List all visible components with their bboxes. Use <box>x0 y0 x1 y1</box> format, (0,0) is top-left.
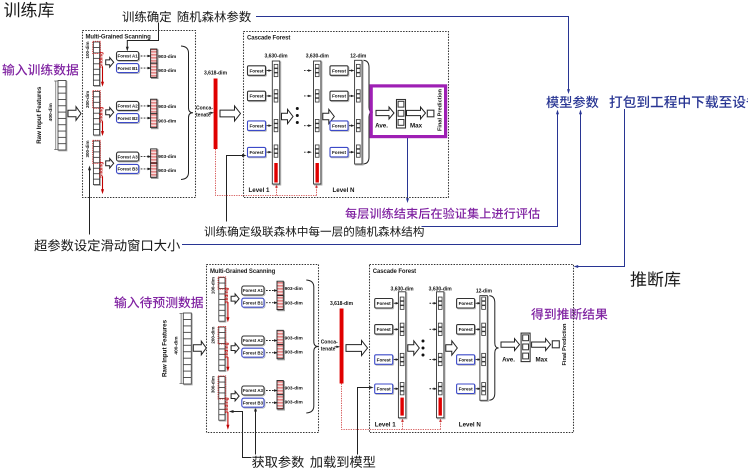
inf g3 hollow arrow scan <box>231 391 239 401</box>
training purple result box <box>371 86 445 137</box>
inf LN forest 4 arrow to vector <box>476 388 479 390</box>
svg-text:Forest: Forest <box>249 150 264 155</box>
train g3 forest box Forest A3 <box>117 152 140 162</box>
train g3 scan window strip 300-dim <box>93 141 100 186</box>
inference arrow concatenate to vector <box>335 346 338 348</box>
wire: get-params up to Forest B3 <box>255 410 257 455</box>
inf g1 class vector Forest A1 <box>277 281 284 296</box>
training hollow arrow level1-2 <box>282 109 294 123</box>
svg-text:Forest: Forest <box>249 68 264 73</box>
training hollow arrow into levelN <box>323 109 335 123</box>
train g2 dashed arrow Forest A2 to vector <box>141 105 149 107</box>
svg-text:Sliding: Sliding <box>99 162 105 178</box>
train g2 hollow arrow scan <box>106 108 114 118</box>
svg-text:3,630-dim: 3,630-dim <box>306 54 330 60</box>
svg-text:Sliding: Sliding <box>99 107 105 123</box>
train input feature strip <box>58 81 67 151</box>
train g1 dashed arrow Forest A1 to vector <box>141 55 149 57</box>
inference level1 output strip <box>398 292 406 419</box>
train g1 red sliding window 100-dim <box>93 41 101 53</box>
train L1 forest 4 arrow to vector <box>267 151 270 153</box>
train g1 scan window strip 100-dim <box>93 42 100 87</box>
wire: window size text up to scan strip <box>89 169 91 235</box>
inf g3 class vector Forest B3 <box>277 395 284 410</box>
svg-text:Sliding: Sliding <box>99 52 105 68</box>
train g1 forest box Forest A1 <box>117 52 140 62</box>
infer input feature strip <box>183 313 192 385</box>
train cascade LN forest 2 <box>330 91 349 101</box>
training final prediction square <box>427 110 434 117</box>
train g3 hollow arrow scan <box>106 159 114 169</box>
inf g2 class vector Forest B2 <box>277 345 284 360</box>
train g1 red sliding arrow <box>102 66 104 83</box>
training ellipsis dots <box>296 107 299 124</box>
inf g1 scan window strip 100-dim <box>219 278 226 323</box>
inf cascade LN forest 1 <box>457 299 476 309</box>
train levelN input arrow 2 <box>304 95 310 97</box>
train cascade L1 forest 1 <box>248 66 267 76</box>
inf LN forest 3 arrow to vector <box>476 359 479 361</box>
training final brace <box>364 60 373 164</box>
inf g2 dashed arrow Forest B2 to vector <box>266 352 276 354</box>
train L1 forest 1 arrow to vector <box>267 70 270 72</box>
inference max arrow <box>532 339 551 351</box>
svg-text:Forest B2: Forest B2 <box>243 350 264 355</box>
svg-text:903-dim: 903-dim <box>158 54 176 60</box>
train g3 forest box Forest B3 <box>117 164 140 174</box>
svg-text:903-dim: 903-dim <box>158 168 176 174</box>
train cascade L1 forest 3 <box>248 121 267 131</box>
inf g2 dashed arrow Forest A2 to vector <box>266 340 276 342</box>
inf g1 red sliding window 100-dim <box>218 277 226 289</box>
svg-text:903-dim: 903-dim <box>158 104 176 110</box>
training 12-dim strip <box>355 60 363 165</box>
train g1 class vector Forest B1 <box>151 63 158 78</box>
inf levelN input arrow 3 <box>430 359 436 361</box>
svg-text:903-dim: 903-dim <box>285 386 303 392</box>
training hollow arrow into cascade <box>220 106 241 121</box>
annotation: training determines RF params <box>123 11 251 22</box>
svg-text:Forest A1: Forest A1 <box>118 54 139 59</box>
train cascade L1 forest 2 <box>248 91 267 101</box>
wire: RF params to model parameters <box>256 17 569 92</box>
inf g3 forest box Forest B3 <box>242 398 265 408</box>
inf g3 scan window strip 300-dim <box>219 377 226 422</box>
train L1 forest 3 arrow to vector <box>267 125 270 127</box>
svg-text:903-dim: 903-dim <box>285 286 303 292</box>
train L1 forest 2 arrow to vector <box>267 95 270 97</box>
svg-text:903-dim: 903-dim <box>158 154 176 160</box>
annotation: package & download to device <box>610 95 748 108</box>
inf g3 red sliding window 300-dim <box>218 376 226 399</box>
annotation: each level evaluated on validation set <box>345 208 539 220</box>
inf g2 forest box Forest B2 <box>242 348 265 358</box>
inf L1 forest 2 arrow to vector <box>394 328 397 330</box>
inference cascade forest box <box>370 265 574 433</box>
train LN forest 2 arrow to vector <box>349 95 352 97</box>
train hollow arrow input <box>68 107 81 121</box>
annotation: get params load into model <box>252 456 375 468</box>
svg-text:Forest: Forest <box>377 357 392 362</box>
train g2 forest box Forest B2 <box>117 114 140 124</box>
inf g2 red sliding window 200-dim <box>218 326 226 344</box>
training arrow concatenate to vector <box>209 112 212 114</box>
annotation: input data to predict <box>115 296 204 308</box>
inf g1 red sliding arrow <box>227 302 229 319</box>
training max arrow <box>407 107 426 119</box>
wire: get-params into cascade blue forest <box>358 388 371 455</box>
svg-text:Forest: Forest <box>459 357 474 362</box>
svg-text:tenate: tenate <box>196 113 211 119</box>
svg-text:300-dim: 300-dim <box>85 140 90 157</box>
svg-text:Cascade Forest: Cascade Forest <box>373 269 416 275</box>
inf g2 hollow arrow scan <box>231 343 239 353</box>
train LN forest 3 arrow to vector <box>349 125 352 127</box>
svg-text:Max: Max <box>535 357 548 364</box>
svg-text:Forest: Forest <box>459 386 474 391</box>
svg-text:903-dim: 903-dim <box>285 350 303 356</box>
svg-text:903-dim: 903-dim <box>285 400 303 406</box>
train LN forest 4 arrow to vector <box>349 151 352 153</box>
wire: structure text up to level-1 blue forest <box>227 156 244 222</box>
inf g3 forest box Forest A3 <box>242 386 265 396</box>
inference red feed wires to cascade levels <box>342 384 441 430</box>
svg-text:Multi-Grained Scanning: Multi-Grained Scanning <box>86 34 152 40</box>
inf L1 forest 4 arrow to vector <box>394 388 397 390</box>
svg-text:Level 1: Level 1 <box>249 187 271 194</box>
train g3 dashed arrow Forest A3 to vector <box>141 156 149 158</box>
inf cascade L1 forest 4 <box>375 384 394 394</box>
svg-text:Forest: Forest <box>249 123 264 128</box>
training ave vector 3 cells <box>397 100 406 129</box>
train g2 red sliding window 200-dim <box>93 91 101 109</box>
svg-text:Forest A3: Forest A3 <box>118 154 139 159</box>
inference final brace <box>489 296 498 401</box>
wire: window size text to model parameters <box>182 113 581 245</box>
inf levelN input arrow 1 <box>430 302 436 304</box>
inf g2 class vector Forest A2 <box>277 330 284 345</box>
inf g2 scan window strip 200-dim <box>219 327 226 372</box>
svg-text:Forest: Forest <box>332 68 347 73</box>
svg-text:Forest B1: Forest B1 <box>117 66 138 71</box>
training ave arrow <box>376 107 394 119</box>
inf g3 class vector Forest A3 <box>277 381 284 396</box>
svg-text:Forest: Forest <box>459 327 474 332</box>
inf levelN input arrow 4 <box>430 388 436 390</box>
inf g1 hollow arrow scan <box>231 294 239 304</box>
wire: purple box down to evaluation text <box>407 137 409 200</box>
annotation: model parameters <box>546 96 598 109</box>
inf levelN input arrow 2 <box>430 328 436 330</box>
svg-text:Forest: Forest <box>332 94 347 99</box>
svg-text:Forest A2: Forest A2 <box>243 338 264 343</box>
svg-text:Forest A1: Forest A1 <box>243 288 264 293</box>
title inference library <box>631 271 681 287</box>
inf g1 dashed arrow Forest B1 to vector <box>266 302 276 304</box>
inf g1 forest box Forest A1 <box>242 286 265 296</box>
inf g3 dashed arrow Forest B3 to vector <box>266 402 276 404</box>
wire: cascade structure text to model parameters <box>422 113 558 227</box>
inference concat brace <box>306 280 318 413</box>
train g2 scan window strip 200-dim <box>93 91 100 135</box>
svg-text:Multi-Grained Scanning: Multi-Grained Scanning <box>210 269 276 275</box>
train g2 forest box Forest A2 <box>117 101 140 111</box>
train cascade LN forest 4 <box>330 147 349 157</box>
train g2 dashed arrow Forest B2 to vector <box>141 117 149 119</box>
svg-text:400-dim: 400-dim <box>173 336 179 354</box>
svg-text:Forest: Forest <box>332 150 347 155</box>
inf g1 dashed arrow Forest A1 to vector <box>266 290 276 292</box>
training level1 output strip <box>272 61 280 185</box>
svg-text:Sliding: Sliding <box>224 342 230 358</box>
svg-text:Forest B2: Forest B2 <box>117 116 138 121</box>
inference hollow arrow level1-2 <box>408 341 420 355</box>
svg-text:3,618-dim: 3,618-dim <box>330 301 354 307</box>
training concat brace <box>181 46 193 180</box>
svg-text:Ave.: Ave. <box>375 123 388 130</box>
svg-text:200-dim: 200-dim <box>85 91 90 108</box>
svg-text:Forest: Forest <box>377 327 392 332</box>
inference 12-dim strip <box>480 296 488 402</box>
inference multi-grained scanning box <box>207 265 319 433</box>
svg-text:903-dim: 903-dim <box>158 118 176 124</box>
title training library <box>4 2 54 18</box>
train g1 forest box Forest B1 <box>117 64 140 74</box>
train levelN input arrow 4 <box>304 151 310 153</box>
inference ave arrow <box>501 339 520 351</box>
inf LN forest 2 arrow to vector <box>476 328 479 330</box>
svg-text:Forest: Forest <box>377 301 392 306</box>
train g3 red sliding window 300-dim <box>93 140 101 163</box>
training levelN input strip <box>314 61 322 185</box>
train LN forest 1 arrow to vector <box>349 70 352 72</box>
svg-text:200-dim: 200-dim <box>211 327 216 344</box>
train g3 class vector Forest B3 <box>151 163 158 178</box>
inf cascade L1 forest 1 <box>375 299 394 309</box>
svg-text:Raw Input Features: Raw Input Features <box>161 319 168 377</box>
inf g2 red sliding arrow <box>227 357 229 369</box>
inference ellipsis dots <box>422 340 425 357</box>
svg-text:Cascade Forest: Cascade Forest <box>247 36 290 42</box>
svg-text:Conca-: Conca- <box>321 340 338 346</box>
svg-text:Final Prediction: Final Prediction <box>562 323 568 366</box>
svg-text:100-dim: 100-dim <box>211 277 216 294</box>
train 400-dim extent line <box>54 81 57 150</box>
inf cascade L1 forest 2 <box>375 325 394 335</box>
train g1 class vector Forest A1 <box>151 49 158 64</box>
svg-text:tenate: tenate <box>321 347 336 353</box>
inference hollow arrow into cascade <box>346 340 368 355</box>
infer hollow arrow input <box>193 341 206 355</box>
train g1 hollow arrow scan <box>106 58 114 68</box>
inf cascade LN forest 2 <box>457 325 476 335</box>
svg-text:100-dim: 100-dim <box>85 41 90 58</box>
annotation: training determines per-level RF structure <box>205 226 424 237</box>
inf g3 dashed arrow Forest A3 to vector <box>266 390 276 392</box>
training red feed wires to cascade levels <box>216 149 317 196</box>
svg-text:Forest B1: Forest B1 <box>243 300 264 305</box>
svg-text:3,630-dim: 3,630-dim <box>264 54 288 60</box>
training cascade forest box <box>244 32 449 198</box>
svg-text:Level 1: Level 1 <box>375 421 397 428</box>
train levelN input arrow 1 <box>304 70 310 72</box>
train g2 class vector Forest B2 <box>151 113 158 128</box>
inference final prediction square <box>552 341 559 348</box>
svg-text:Forest A3: Forest A3 <box>243 388 264 393</box>
wire: get-params to scan window <box>232 412 252 458</box>
inf g2 forest box Forest A2 <box>242 336 265 346</box>
inference concatenated red vector 3618-dim <box>340 309 344 384</box>
inference levelN input strip <box>437 292 445 419</box>
svg-text:Final Prediction: Final Prediction <box>437 88 443 131</box>
svg-text:Max: Max <box>410 123 423 130</box>
train g3 red sliding arrow <box>102 176 104 191</box>
train g2 red sliding arrow <box>102 121 104 133</box>
svg-text:903-dim: 903-dim <box>158 68 176 74</box>
inf cascade LN forest 3 <box>457 355 476 365</box>
train g1 dashed arrow Forest B1 to vector <box>141 67 149 69</box>
inf cascade LN forest 4 <box>457 384 476 394</box>
svg-text:Conca-: Conca- <box>196 106 213 112</box>
annotation: hyperparameter sliding window size <box>34 239 180 251</box>
svg-text:300-dim: 300-dim <box>211 376 216 393</box>
svg-text:12-dim: 12-dim <box>350 54 367 60</box>
svg-text:Forest: Forest <box>377 386 392 391</box>
infer 400-dim extent line <box>180 314 183 384</box>
train g3 dashed arrow Forest B3 to vector <box>141 168 149 170</box>
inf g1 forest box Forest B1 <box>242 298 265 308</box>
inf L1 forest 1 arrow to vector <box>394 302 397 304</box>
svg-text:3,618-dim: 3,618-dim <box>204 71 228 77</box>
svg-text:Forest B3: Forest B3 <box>117 167 138 172</box>
svg-text:Level N: Level N <box>333 187 356 194</box>
svg-text:Forest: Forest <box>459 301 474 306</box>
svg-text:Ave.: Ave. <box>502 357 515 364</box>
annotation: obtain inference result <box>531 308 607 320</box>
inference ave vector 3 cells <box>521 333 530 362</box>
svg-text:Raw Input Features: Raw Input Features <box>36 86 43 144</box>
wire: RF params text into Forest A1 <box>127 23 158 49</box>
svg-text:903-dim: 903-dim <box>285 300 303 306</box>
train g2 class vector Forest A2 <box>151 99 158 114</box>
svg-text:Forest A2: Forest A2 <box>118 104 139 109</box>
inf g1 class vector Forest B1 <box>277 295 284 310</box>
inference hollow arrow into levelN <box>446 341 458 355</box>
wire: download-to-device into inference cascade <box>577 109 625 267</box>
train cascade LN forest 3 <box>330 121 349 131</box>
svg-text:400-dim: 400-dim <box>48 103 54 121</box>
train cascade L1 forest 4 <box>248 147 267 157</box>
svg-text:Forest: Forest <box>332 123 347 128</box>
train levelN input arrow 3 <box>304 125 310 127</box>
training multi-grained scanning box <box>83 31 196 198</box>
train cascade LN forest 1 <box>330 66 349 76</box>
training concatenated red vector 3618-dim <box>214 79 218 150</box>
svg-text:12-dim: 12-dim <box>476 289 493 295</box>
inf cascade L1 forest 3 <box>375 355 394 365</box>
svg-text:Sliding: Sliding <box>224 397 230 413</box>
svg-text:Forest B3: Forest B3 <box>243 400 264 405</box>
svg-text:Sliding: Sliding <box>224 287 230 303</box>
train g3 class vector Forest A3 <box>151 149 158 164</box>
annotation: input training data <box>3 64 79 76</box>
inf L1 forest 3 arrow to vector <box>394 359 397 361</box>
svg-text:903-dim: 903-dim <box>285 335 303 341</box>
svg-text:Forest: Forest <box>249 94 264 99</box>
inf g3 red sliding arrow <box>227 412 229 427</box>
svg-text:Level N: Level N <box>459 421 482 428</box>
inf LN forest 1 arrow to vector <box>476 302 479 304</box>
